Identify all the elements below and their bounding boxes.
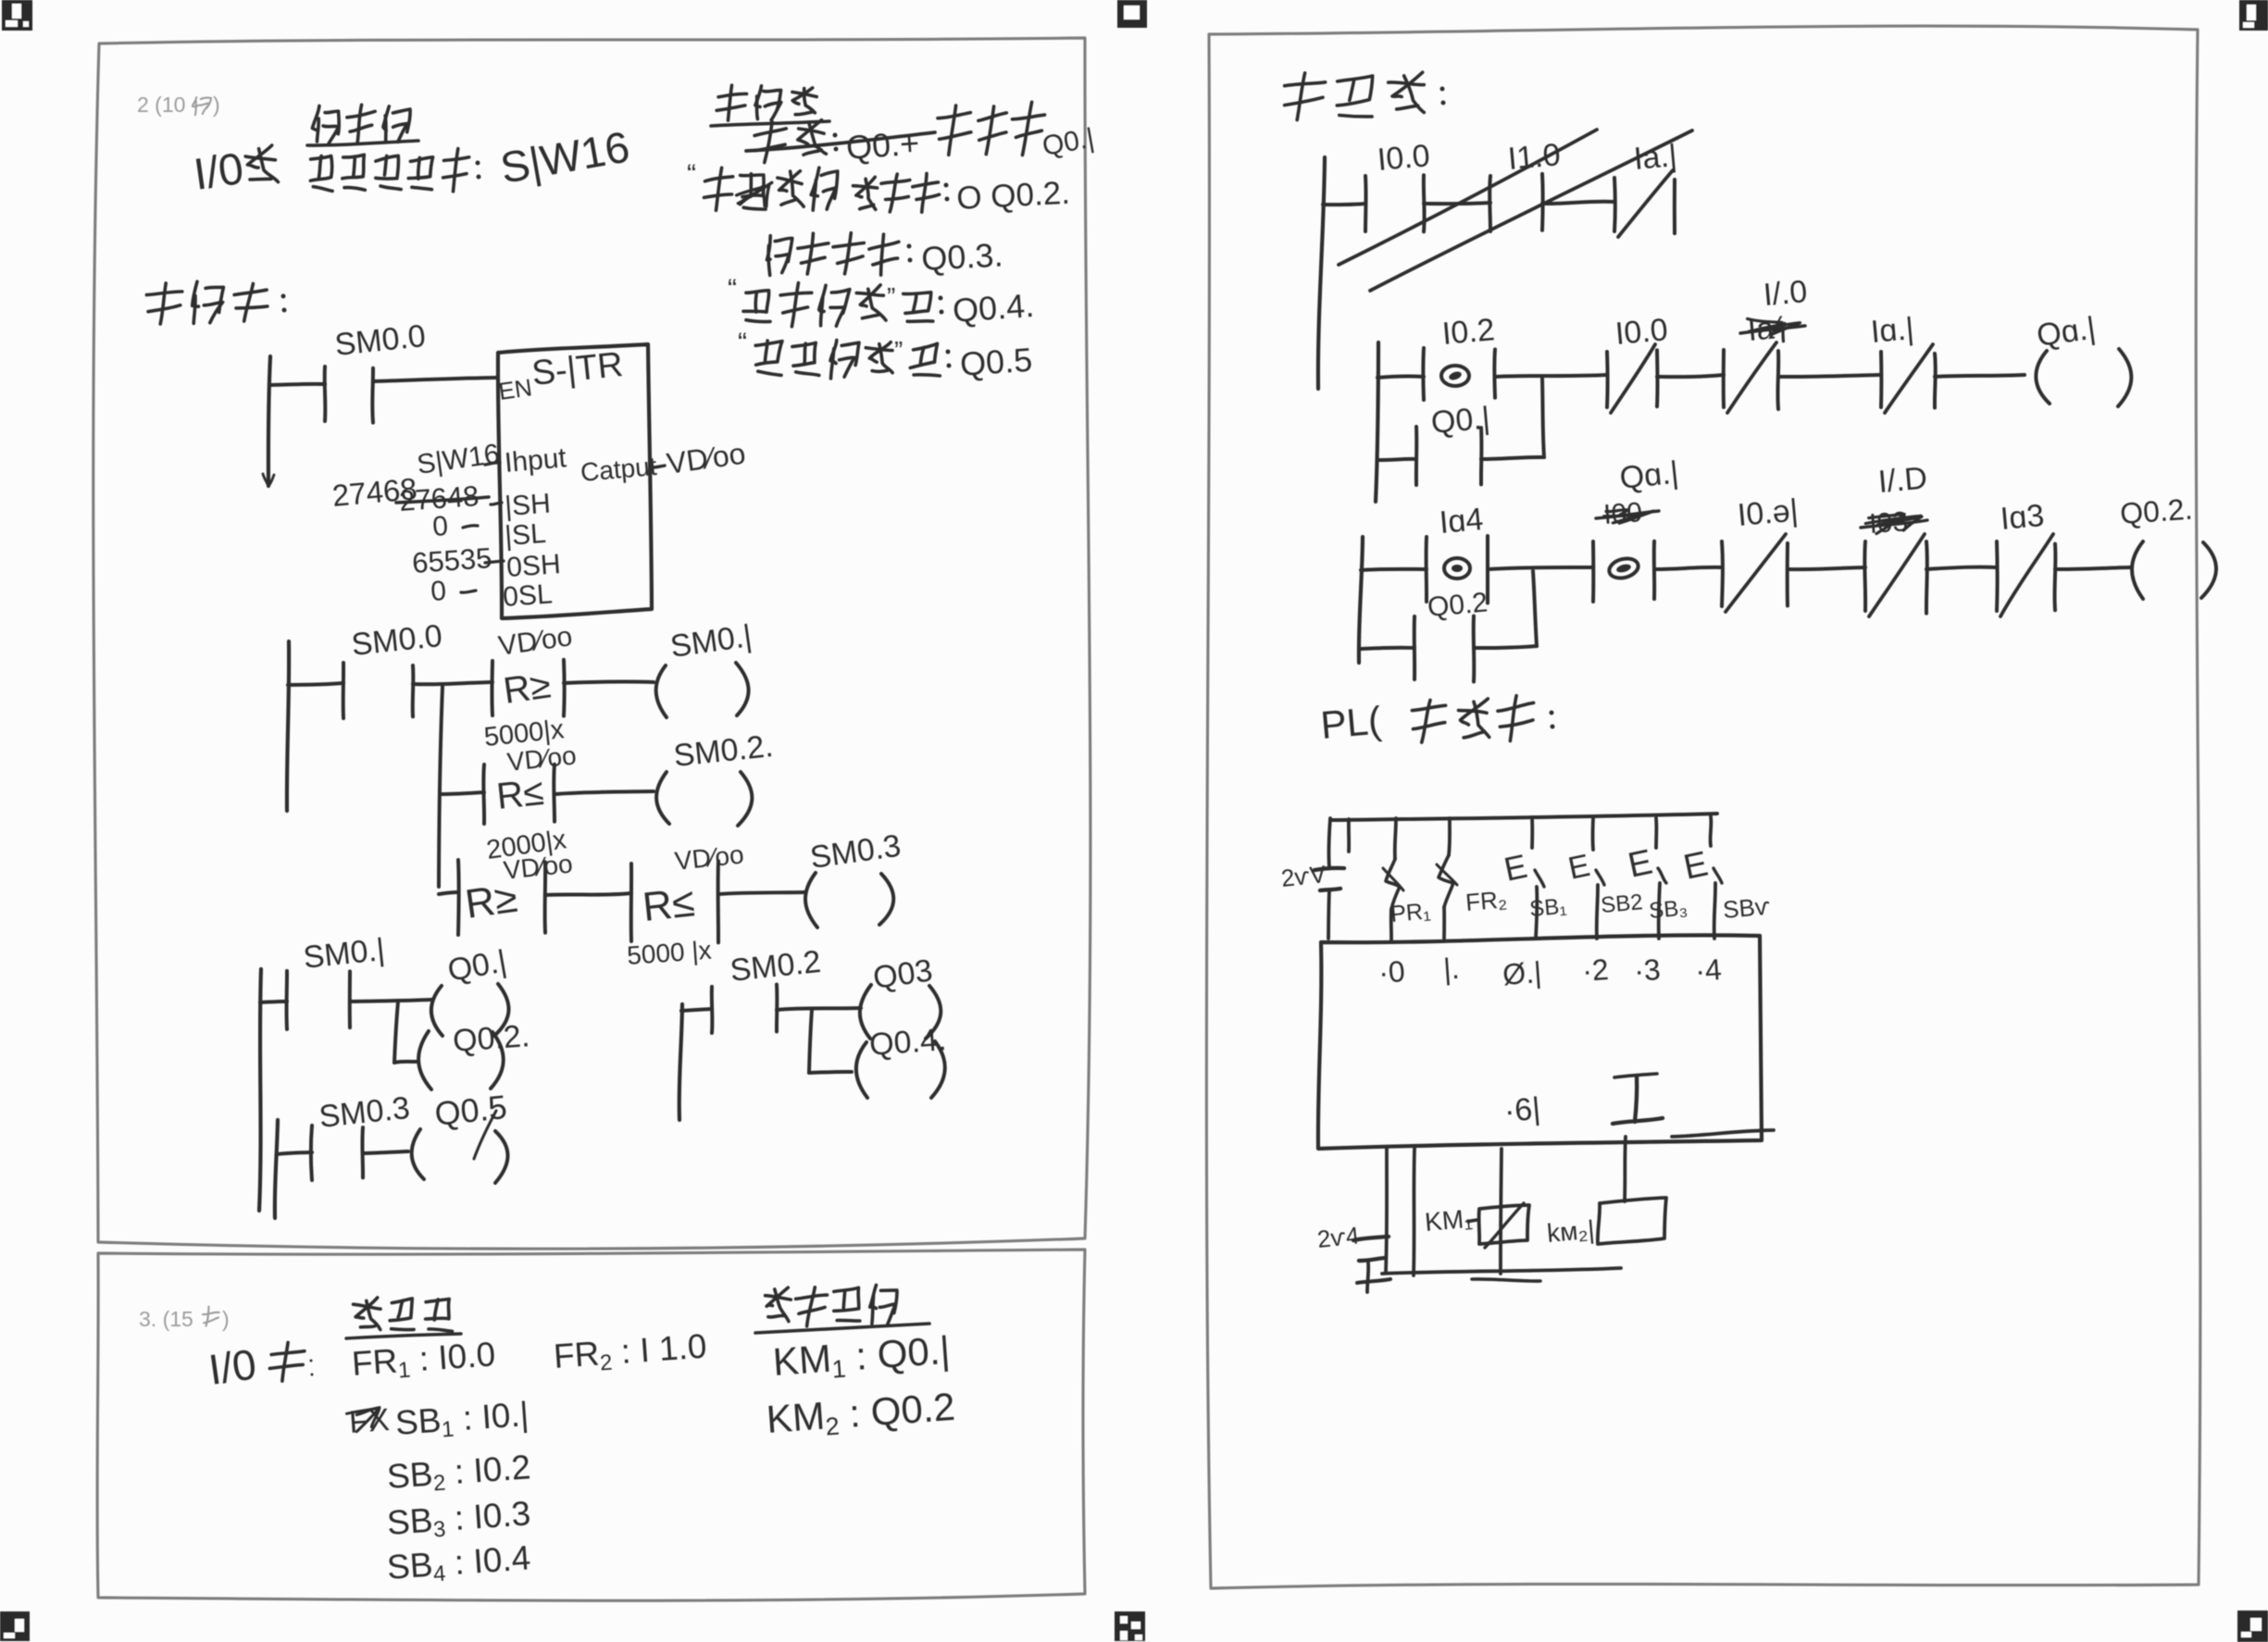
printed header 2 (10分) — [137, 93, 220, 117]
rungC crossed-out label I0.3 — [1861, 506, 1927, 540]
rungA contact I0.0 — [1365, 138, 1431, 231]
svg-text:I0.0: I0.0 — [1376, 138, 1431, 178]
svg-text:I/0: I/0 — [206, 1339, 259, 1394]
svg-text:”: ” — [887, 282, 895, 311]
net4 wire to coils — [777, 1008, 861, 1010]
svg-text:2 (10: 2 (10 — [137, 93, 185, 117]
svg-text:2ѵV: 2ѵV — [1279, 860, 1327, 892]
net3 wire to coils — [350, 1000, 431, 1001]
svg-text:65535: 65535 — [411, 541, 492, 579]
net2 row1 wire to coil — [564, 681, 654, 683]
rungB rail stub wire — [1377, 376, 1424, 378]
rungB wire4 — [1935, 375, 2025, 377]
svg-text:Iɑ.|: Iɑ.| — [1869, 311, 1915, 350]
rungC NC contact I0.1 — [1722, 492, 1800, 612]
fiducial marker top-left — [2, 0, 32, 31]
svg-text:kм₂|: kм₂| — [1546, 1215, 1596, 1248]
handwritten 输出值 heading with underline — [711, 85, 829, 126]
svg-text:“: “ — [728, 274, 737, 305]
handwritten SB4: I0.4 — [386, 1538, 532, 1590]
rungB parallel contact Q0.1 (latch branch) — [1377, 379, 1544, 485]
strike-through diagonal lines over rung A — [1339, 130, 1692, 291]
net5 wire to coil — [363, 1151, 408, 1153]
svg-text:I/.D: I/.D — [1876, 461, 1928, 500]
fiducial marker bottom-middle — [1115, 1611, 1145, 1641]
net2 left power rail — [287, 641, 289, 811]
net2 branch vertical wire — [439, 687, 442, 887]
rungB crossed-out label I0.1 — [1740, 310, 1805, 348]
printed header 3. (15分) — [139, 1307, 230, 1332]
wiring below-box vertical 1 — [1386, 1149, 1387, 1272]
pin value 0 OSL — [430, 576, 554, 613]
pushbutton SB3 — [1625, 818, 1689, 939]
svg-text:SB2: SB2 — [1600, 889, 1644, 918]
rungB left power rail — [1376, 342, 1378, 502]
wiring bottom return wire — [1382, 1268, 1621, 1281]
handwritten "光照不足"灯:Q0.4. — [728, 274, 1035, 330]
svg-text:Q0.4.: Q0.4. — [952, 286, 1036, 330]
net2 wire to comparator R1 — [413, 682, 492, 684]
pin value 0 ISL — [431, 511, 547, 552]
net4 branch vertical wire — [809, 1010, 812, 1073]
svg-text:SB₃: SB₃ — [1648, 895, 1689, 924]
svg-text:2ѵ4: 2ѵ4 — [1315, 1221, 1360, 1253]
fiducial marker bottom-right — [2237, 1611, 2268, 1642]
svg-text:Iɑ4: Iɑ4 — [1438, 502, 1484, 541]
net2 row2 wire to coil — [555, 791, 654, 794]
svg-text:I0.ə|: I0.ə| — [1736, 492, 1800, 533]
rungC wire4 — [1926, 567, 1997, 569]
net3 rail stub wire — [260, 1001, 287, 1002]
svg-text:Q0.4.: Q0.4. — [868, 1022, 948, 1063]
svg-text:0SH: 0SH — [505, 549, 562, 583]
net3 branch vertical wire — [394, 1001, 398, 1063]
svg-text:FX: FX — [348, 1402, 391, 1440]
net2 row3 wire between comparators — [545, 893, 631, 895]
svg-text:·6|: ·6| — [1502, 1091, 1541, 1129]
svg-text:0: 0 — [431, 511, 449, 542]
handwritten SB1: I0.1 — [394, 1395, 530, 1446]
svg-text:Q0.2: Q0.2 — [1427, 587, 1489, 623]
wiring below-box vertical 4 — [1625, 1137, 1626, 1201]
rungC parallel contact Q0.2 (latch branch) — [1361, 571, 1537, 682]
output coil Q0.1 — [431, 943, 509, 1036]
handwritten 电机正转:Q0.1 — [938, 102, 1097, 162]
wiring below-box vertical 2 — [1414, 1149, 1414, 1275]
PLC input pin labels — [1377, 952, 1723, 991]
24L supply symbol — [1315, 1221, 1390, 1292]
net2 contact SM0.0 — [343, 618, 444, 718]
svg-text:O Q0.2.: O Q0.2. — [955, 175, 1070, 217]
rungA left power rail — [1318, 157, 1325, 389]
rungC wire3 — [1788, 567, 1865, 569]
rungC rail stub wire — [1361, 569, 1427, 570]
handwritten 输入值 heading (q3) — [346, 1298, 461, 1338]
rungA NC contact I0.1 — [1614, 138, 1678, 237]
pin value 65535 OSH — [411, 541, 562, 583]
svg-text:Ihput: Ihput — [504, 442, 568, 479]
svg-text:|SL: |SL — [504, 518, 547, 552]
handwritten I/O表 label (q3) — [206, 1339, 313, 1394]
svg-text:R≤: R≤ — [641, 879, 697, 930]
thermal relay contact FR1 — [1383, 818, 1432, 940]
svg-text:·4: ·4 — [1694, 952, 1723, 988]
svg-text:5000 |x: 5000 |x — [626, 936, 712, 970]
wiring top bus — [1330, 814, 1717, 820]
rungC wire1 — [1488, 567, 1593, 569]
left page frame (question 2) — [93, 38, 1090, 1249]
svg-text:Q0.2.: Q0.2. — [2119, 492, 2194, 530]
left page frame (question 3) — [97, 1250, 1085, 1600]
comparator block R<= VD100 (row2) — [483, 740, 578, 824]
svg-text:I/0: I/0 — [191, 144, 246, 200]
svg-text:R≤: R≤ — [494, 772, 545, 817]
net2 row2 branch stub — [441, 792, 484, 794]
rungC NC contact I1.0 — [1864, 534, 1927, 616]
crossed-out 电机:Q0.1 with strike — [746, 120, 935, 167]
svg-text:I0.2: I0.2 — [1440, 312, 1496, 352]
rungC contact I0.4 with dot — [1427, 502, 1489, 603]
svg-text:|.: |. — [1442, 952, 1461, 986]
output coil SM0.2 — [656, 728, 775, 826]
rungA wire2 — [1542, 202, 1614, 204]
svg-text:Q0.+: Q0.+ — [845, 124, 921, 167]
fiducial marker top-middle — [1117, 0, 1147, 28]
rungB wire1 — [1495, 375, 1607, 377]
handwritten 输入值 heading with underline — [307, 105, 418, 145]
rungB output coil Q0.1 — [2035, 310, 2132, 406]
rungC label I1.0 above crossed I0.3 — [1876, 461, 1928, 500]
svg-text:PR₁: PR₁ — [1389, 898, 1431, 927]
net4 left power rail — [679, 1004, 682, 1120]
rungB NC contact I1.0(corrected) — [1724, 342, 1779, 413]
svg-text:SB₁: SB₁ — [1528, 894, 1567, 922]
svg-text:·3: ·3 — [1633, 952, 1662, 988]
net2 row3 wire to coil — [718, 892, 805, 894]
crossed-out FX before SB1 — [347, 1402, 391, 1440]
comparator block R>= VD100 (row1) — [492, 621, 574, 715]
svg-text:I1.0: I1.0 — [1506, 137, 1562, 177]
24V supply battery symbol — [1279, 818, 1344, 939]
rungB contact I0.2 with dot — [1423, 312, 1496, 400]
wiring drop wire 1 — [1347, 819, 1351, 852]
svg-text:Q0.2.: Q0.2. — [452, 1018, 531, 1059]
net5 left power rail — [275, 1120, 278, 1218]
rungC output coil Q0.2 — [2119, 492, 2216, 599]
contactor coil KM1 — [1424, 1203, 1529, 1248]
net3 contact SM0.1 — [286, 932, 386, 1029]
rungB wire3 — [1778, 375, 1881, 377]
right page frame — [1206, 26, 2200, 1588]
pin value 27468 over struck 27648 ISH — [330, 471, 551, 522]
handwritten 光照传感器: SIW16 — [310, 121, 632, 193]
svg-text:0SL: 0SL — [502, 578, 554, 613]
handwritten I/O表 label — [191, 144, 278, 200]
comparator block R<= VD100 (row3 second) — [626, 840, 745, 970]
pushbutton SB1 — [1501, 818, 1567, 939]
svg-text:”: ” — [894, 336, 903, 365]
rungB NC contact I0.0 — [1607, 312, 1669, 413]
svg-text:·0: ·0 — [1377, 954, 1406, 989]
svg-text:Ø.|: Ø.| — [1502, 955, 1543, 991]
fiducial marker bottom-left — [0, 1611, 30, 1641]
svg-text:): ) — [222, 1307, 230, 1331]
handwritten SB3: I0.3 — [386, 1494, 532, 1546]
handwritten KM2: Q0.2 — [765, 1385, 956, 1445]
net4 rail stub wire — [681, 1009, 712, 1011]
handwritten 电机反转:Q0.3. — [767, 233, 1004, 278]
net1 rail stub wire — [269, 384, 325, 385]
comparator block R>= VD100 (row3) — [458, 849, 574, 935]
handwritten "光照过度"指示灯:O Q0.2. — [687, 159, 1071, 217]
output coil Q0.4 — [856, 1022, 948, 1098]
handwritten KM1: Q0.1 — [771, 1328, 952, 1387]
wiring below-box vertical 3 — [1501, 1149, 1502, 1274]
rungA contact I1.0 — [1489, 137, 1562, 231]
net5 contact SM0.3 — [311, 1090, 412, 1180]
pin label SIW16-Input — [415, 439, 567, 480]
thermal relay contact FR2 — [1437, 818, 1508, 939]
svg-text:SBѵ: SBѵ — [1722, 892, 1772, 924]
output coil SM0.1 — [656, 618, 754, 717]
contactor coil KM2 — [1546, 1198, 1666, 1248]
output coil Q0.5 — [412, 1088, 509, 1183]
PLC box — [1318, 935, 1774, 1149]
svg-text:“: “ — [687, 159, 696, 190]
handwritten SB2: I0.2 — [386, 1448, 532, 1499]
net5 rail stub wire — [277, 1152, 312, 1154]
rungA rail stub wire — [1323, 204, 1365, 205]
net2 rail stub wire — [288, 683, 343, 685]
handwritten "光照正常"灯:Q0.5 — [738, 328, 1033, 383]
rungC wire5 — [2055, 567, 2131, 569]
PLC common terminal symbol — [1613, 1074, 1663, 1124]
net1 contact SM0.0 — [325, 318, 428, 423]
fiducial marker top-right — [2239, 0, 2268, 31]
svg-text:PL(: PL( — [1319, 698, 1383, 747]
output coil Q0.3 — [860, 952, 941, 1039]
function box S-ITR U1 — [497, 344, 652, 618]
net1 wire to S-ITR box — [373, 378, 496, 381]
svg-text:I0.0: I0.0 — [1614, 312, 1669, 352]
svg-text:Q0.5: Q0.5 — [959, 341, 1034, 383]
svg-text:): ) — [213, 93, 220, 117]
svg-text:Iɑ3: Iɑ3 — [1999, 498, 2045, 537]
output coil Q0.2 — [418, 1018, 530, 1089]
svg-text:Q0.3.: Q0.3. — [920, 235, 1003, 278]
svg-text:|SH: |SH — [504, 489, 552, 522]
net1 left power rail with arrow — [263, 356, 274, 486]
rungB wire2 — [1657, 375, 1724, 377]
handwritten PLC接线图: heading — [1319, 696, 1555, 747]
svg-text:0: 0 — [430, 576, 447, 607]
svg-text:FR₂: FR₂ — [1464, 885, 1508, 916]
svg-text:R≥: R≥ — [501, 665, 553, 712]
rungC contact Q0.1 with dot — [1593, 541, 1654, 602]
net4 contact SM0.2 — [712, 944, 823, 1033]
value label 5000Lx — [482, 715, 566, 753]
rungC NC contact I0.3 — [1997, 498, 2055, 616]
net4 branch wire to coil Q0.4 — [809, 1072, 852, 1073]
rungC left power rail — [1359, 537, 1363, 663]
handwritten 梯形图: heading (right page) — [1285, 72, 1446, 119]
rungC label Q0.1 above crossed I0.0 — [1618, 455, 1680, 496]
rungA wire1 — [1424, 203, 1490, 204]
rungB label I1.0 above corrected I0.1 — [1762, 274, 1808, 313]
output coil SM0.3 — [805, 828, 903, 927]
svg-text:KM₁: KM₁ — [1424, 1204, 1474, 1237]
svg-text:·2: ·2 — [1581, 952, 1610, 988]
handwritten 梯形图: heading (left page) — [146, 281, 286, 324]
net3 left power rail — [259, 969, 261, 1211]
PLC output pin label .1 — [1502, 1091, 1541, 1129]
svg-text:“: “ — [738, 328, 747, 358]
net2 row3 branch stub — [439, 892, 458, 894]
svg-text:3. (15: 3. (15 — [139, 1307, 193, 1331]
handwritten 当前出值 heading with underline (q3) — [755, 1285, 929, 1333]
value label 2000Lx — [485, 825, 569, 865]
handwritten FR1: I0.0 — [351, 1335, 497, 1387]
handwritten FR2: I1.0 — [553, 1327, 708, 1379]
rungB NC contact I0.1 — [1869, 311, 1935, 413]
rungC wire2 — [1654, 567, 1722, 569]
net3 branch wire to coil Q0.2 — [394, 1062, 418, 1063]
svg-text:R≥: R≥ — [463, 876, 520, 927]
pin label Output VD100 — [579, 436, 748, 487]
pushbutton SB2 — [1565, 818, 1644, 939]
svg-text:EN: EN — [497, 373, 534, 405]
svg-text:Qɑ.|: Qɑ.| — [1618, 455, 1680, 496]
rungC crossed-out label I0.0 — [1596, 497, 1659, 530]
svg-text:I/.0: I/.0 — [1762, 274, 1808, 313]
pushbutton SB4 — [1680, 816, 1772, 939]
